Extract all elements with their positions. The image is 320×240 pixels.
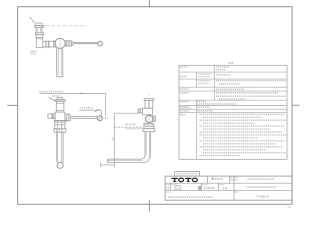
table row3 content (216, 88, 244, 90)
side view pipe inner line (107, 159, 143, 161)
title block approval diamond (212, 178, 214, 180)
front view spud ring (54, 129, 66, 132)
front view lever rod (70, 115, 97, 117)
plan view flush pipe down (56, 48, 58, 77)
front view spud flange (54, 120, 66, 122)
table label row6 (180, 106, 190, 108)
title block r2 date label (202, 184, 208, 186)
spec table title (228, 62, 233, 64)
plan view lever ball end (98, 41, 103, 46)
front view valve body (55, 112, 65, 120)
title block tab text (177, 173, 198, 175)
front view tiny cross mark (105, 117, 108, 119)
title block divider right section (233, 176, 235, 200)
side view handle hub circle (146, 115, 153, 122)
front view dimension line A (39, 92, 106, 94)
front view dimension text over lever (80, 107, 93, 109)
side view pipe elbow inner (107, 155, 145, 159)
table label row7 (180, 110, 189, 112)
plan view right nut (65, 41, 71, 46)
table sublabel low pressure (198, 73, 212, 75)
title block r2 cell2 label (172, 184, 177, 186)
svg-text:TL06.25: TL06.25 (204, 186, 216, 190)
plan view stop valve neck (35, 27, 37, 33)
dimension text below line A (52, 95, 59, 97)
table label row4 (180, 92, 190, 94)
side view extension line to dimension (114, 112, 139, 114)
side view flush pipe vertical (144, 132, 146, 155)
spec table column divider lower (196, 100, 198, 159)
side view body (143, 108, 153, 115)
title block r2 stamp box (175, 186, 181, 190)
title block address text (167, 191, 173, 193)
drawing frame border (18, 7, 293, 205)
dimension A arrowhead (79, 92, 82, 94)
title block r2 stamp blob (198, 186, 201, 190)
front view lever ball (97, 116, 102, 121)
spec table outer border (179, 65, 287, 159)
plan view lever hub step (71, 42, 73, 46)
front view dimension line B (79, 109, 101, 111)
plan view centerline (45, 25, 87, 27)
plan view pipe end (57, 76, 63, 78)
title block row line 1 (165, 182, 292, 184)
front view spud nut (55, 122, 65, 129)
front view stop valve rings (52, 114, 54, 120)
plan view stop valve flange (34, 26, 43, 28)
front view lever raised segment (95, 109, 100, 112)
dimension A extension down (105, 93, 107, 116)
side view stop valve end (138, 109, 143, 113)
front view dimension text top (40, 91, 65, 93)
spec table row lines (179, 71, 287, 73)
title block divider r2 c (218, 183, 220, 190)
table row2b content (216, 80, 286, 82)
plan view stop valve cap (36, 23, 42, 26)
side view dimension text 150 (112, 137, 114, 141)
table row2a content (216, 74, 231, 76)
front view top cap (55, 100, 65, 102)
side view vertical dimension line (113, 113, 115, 160)
plan view leader line (30, 17, 35, 23)
side view spud nut (144, 123, 154, 128)
title block divider r2 a (170, 183, 172, 190)
title block product name label (235, 176, 238, 178)
dimension B extension down (100, 110, 102, 116)
side view lower dimension line (100, 164, 114, 166)
table row1 content (216, 66, 229, 68)
TOTO logo (171, 178, 197, 182)
side view horizontal dimension text upper (125, 123, 136, 125)
plan view inlet flange (45, 41, 46, 48)
title block divider r1 b (229, 176, 231, 183)
plan view body vertical centerline (59, 37, 61, 50)
front view leader line (49, 97, 57, 101)
table sublabel high pressure (198, 80, 210, 82)
table label row8 (180, 113, 186, 115)
front view stop valve cap (48, 114, 52, 118)
front view top knob (57, 98, 63, 100)
side view spud flange (143, 129, 155, 132)
front view pipe end ball (57, 162, 63, 168)
svg-text:TV650S: TV650S (255, 195, 269, 199)
title block divider r2 b (200, 183, 202, 190)
table label row2 (180, 75, 187, 77)
title block row line 2 (165, 189, 292, 191)
spec table column divider main (213, 65, 215, 100)
side view top cap (144, 99, 154, 101)
plan view stop valve body (36, 35, 43, 48)
table row6 content (197, 106, 210, 108)
plan view lever rod (73, 41, 98, 43)
title block approval cell text (215, 178, 223, 180)
title block r2 right text (246, 186, 276, 188)
side view handle stub (153, 116, 156, 122)
page number (288, 206, 291, 208)
title block tab box (175, 172, 200, 177)
title block r1 small cell label (231, 177, 234, 179)
plan view label text (30, 51, 37, 53)
title block outer box (165, 176, 292, 200)
front view lever nut (65, 114, 70, 121)
side view horizontal dimension text lower (126, 128, 142, 130)
plan view inlet pipe (43, 40, 55, 42)
side view centerline tip (148, 94, 150, 96)
table label row1 (180, 66, 187, 68)
front view lever grip slash (98, 116, 102, 120)
plan view circle side flange (54, 41, 56, 47)
title block r2 scale label (220, 184, 225, 186)
side view pipe elbow outer (107, 154, 150, 163)
table notes lines (200, 113, 286, 115)
spec table column divider sub (196, 72, 198, 87)
center mark left (7, 104, 17, 106)
plan view stop valve band (35, 33, 43, 35)
table label row5 (180, 101, 189, 103)
table label row3 (180, 88, 189, 90)
side view hub centerline (148, 116, 150, 123)
title block r2 cell1 stamp (166, 187, 170, 190)
front view flush pipe (56, 132, 58, 162)
center mark top (148, 0, 150, 8)
title block product name (248, 178, 275, 180)
title block divider r1 a (206, 176, 208, 183)
table row5 content (197, 101, 206, 103)
side view vacuum breaker tube (145, 100, 153, 108)
table row4 content (216, 92, 279, 94)
center mark bottom (148, 200, 150, 211)
plan view valve body circle (55, 38, 65, 48)
front view vacuum breaker tube (56, 101, 64, 112)
side view horizontal dimension line (114, 126, 142, 128)
center mark right (292, 104, 299, 106)
svg-text:1:4: 1:4 (222, 186, 227, 190)
title block part number label (235, 191, 239, 193)
side view pipe end cap (106, 159, 108, 162)
table row7 content (197, 110, 212, 112)
plan view centerline tail (42, 25, 44, 27)
front view vertical centerline (59, 93, 61, 97)
title block r2 cell1 label (166, 184, 170, 186)
